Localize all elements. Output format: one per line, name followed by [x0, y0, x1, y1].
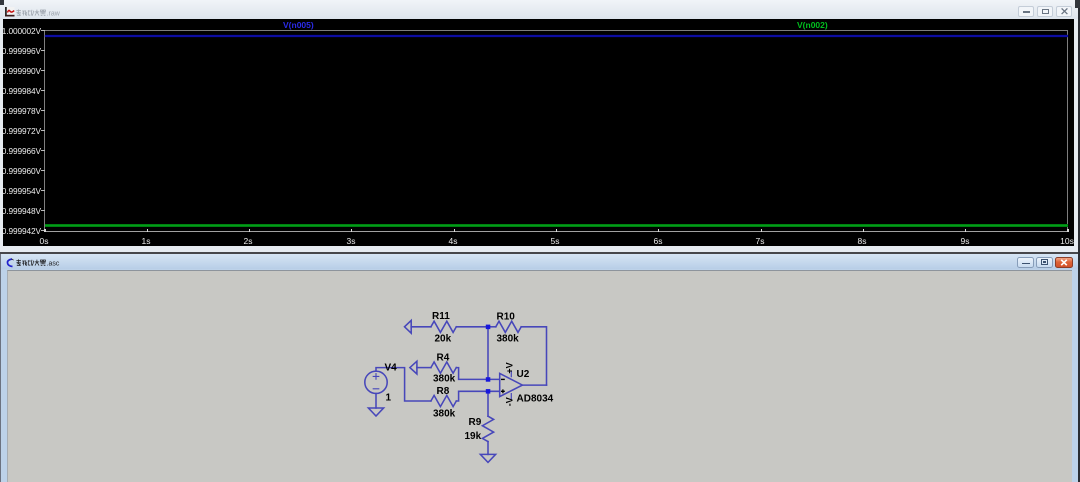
black plot client area [3, 19, 1074, 246]
svg-text:V4: V4 [385, 363, 398, 374]
svg-text:19k: 19k [465, 431, 482, 442]
bottom axis line [45, 231, 1068, 232]
op-amp output wire [522, 384, 546, 386]
op-amp power pin stubs [510, 371, 512, 399]
junction node at R11/R10 [486, 325, 491, 330]
svg-text:-V: -V [505, 397, 515, 406]
ground port (left arrow) at R4 input [410, 361, 417, 374]
V4 top lead and wire to R8 row [376, 368, 431, 401]
op-amp U2 triangle [500, 373, 523, 396]
svg-text:1: 1 [386, 393, 392, 404]
op-amp inverting input minus mark [501, 378, 505, 380]
bottom window body / borders [0, 254, 1080, 482]
svg-text:380k: 380k [433, 374, 456, 385]
resistor R10 [496, 321, 521, 332]
blue trace V(n005) [45, 35, 1068, 37]
schematic gray canvas [7, 270, 1073, 482]
legend V(n005) [283, 20, 343, 28]
top window title text (CJK approximated glyphs) [16, 9, 65, 17]
voltage source V4 circle [365, 371, 387, 393]
ground under V4 [368, 408, 383, 416]
junction node at inverting input [486, 377, 491, 382]
svg-text:20k: 20k [435, 334, 452, 345]
op-amp non-inverting input plus mark [501, 389, 505, 393]
top window buttons: minimize [1018, 6, 1034, 17]
ground under R9 [480, 454, 495, 462]
svg-text:R10: R10 [497, 312, 516, 323]
dark right app-frame column [1078, 0, 1080, 482]
junction node at non-inverting input [486, 389, 491, 394]
top window buttons: restore [1037, 6, 1053, 17]
svg-text:R8: R8 [437, 386, 450, 397]
dark separator [0, 252, 1080, 254]
resistor R9 (vertical) [482, 416, 493, 441]
feedback wire R10 right, down to output [521, 327, 546, 385]
bottom window buttons: restore [1036, 257, 1053, 268]
svg-text:R11: R11 [432, 311, 450, 322]
wire R4 right jog down to op-amp inverting input [456, 368, 499, 380]
dark corner top-left [0, 0, 4, 5]
wire from R4 port to R4 [417, 367, 431, 369]
vertical wire from non-inverting node down to R9 [487, 391, 489, 416]
V4 plus sign [373, 374, 379, 380]
plot border box [44, 30, 1068, 232]
bottom window buttons: close [1055, 257, 1074, 268]
ground port (left arrow) at R11 input [405, 320, 412, 333]
y axis labels [1, 26, 41, 35]
bottom title bar [0, 254, 1080, 269]
svg-text:380k: 380k [497, 334, 520, 345]
resistor R4 [431, 362, 456, 373]
schematic window icon [5, 258, 15, 268]
svg-text:R4: R4 [437, 353, 450, 364]
dark corner top-right [1075, 0, 1080, 8]
top window title bar [0, 0, 1080, 19]
wire R11 to node [456, 326, 488, 328]
top window buttons: close [1056, 6, 1072, 17]
svg-text:R9: R9 [469, 417, 482, 428]
svg-text:AD8034: AD8034 [517, 394, 554, 405]
green trace V(n002) [45, 224, 1068, 226]
svg-text:+V: +V [505, 362, 515, 373]
V4 minus sign [373, 388, 379, 390]
V4 bottom lead [375, 394, 377, 409]
legend V(n002) [797, 20, 857, 28]
wire node to R10 [488, 326, 496, 328]
bottom window buttons: minimize [1017, 257, 1034, 268]
vertical wire node A (R11/R10) down to inverting input [487, 327, 489, 380]
resistor R8 [431, 395, 456, 406]
svg-text:U2: U2 [517, 369, 530, 380]
R9 bottom lead [487, 442, 489, 455]
resistor R11 [431, 321, 456, 332]
x axis labels [3, 19, 1074, 246]
wire from R11 port to R11 [411, 326, 431, 328]
bottom window title text [16, 259, 65, 267]
wire R8 right jog up to op-amp non-inverting input [456, 391, 499, 401]
waveform window icon [5, 7, 15, 17]
svg-text:380k: 380k [433, 409, 456, 420]
